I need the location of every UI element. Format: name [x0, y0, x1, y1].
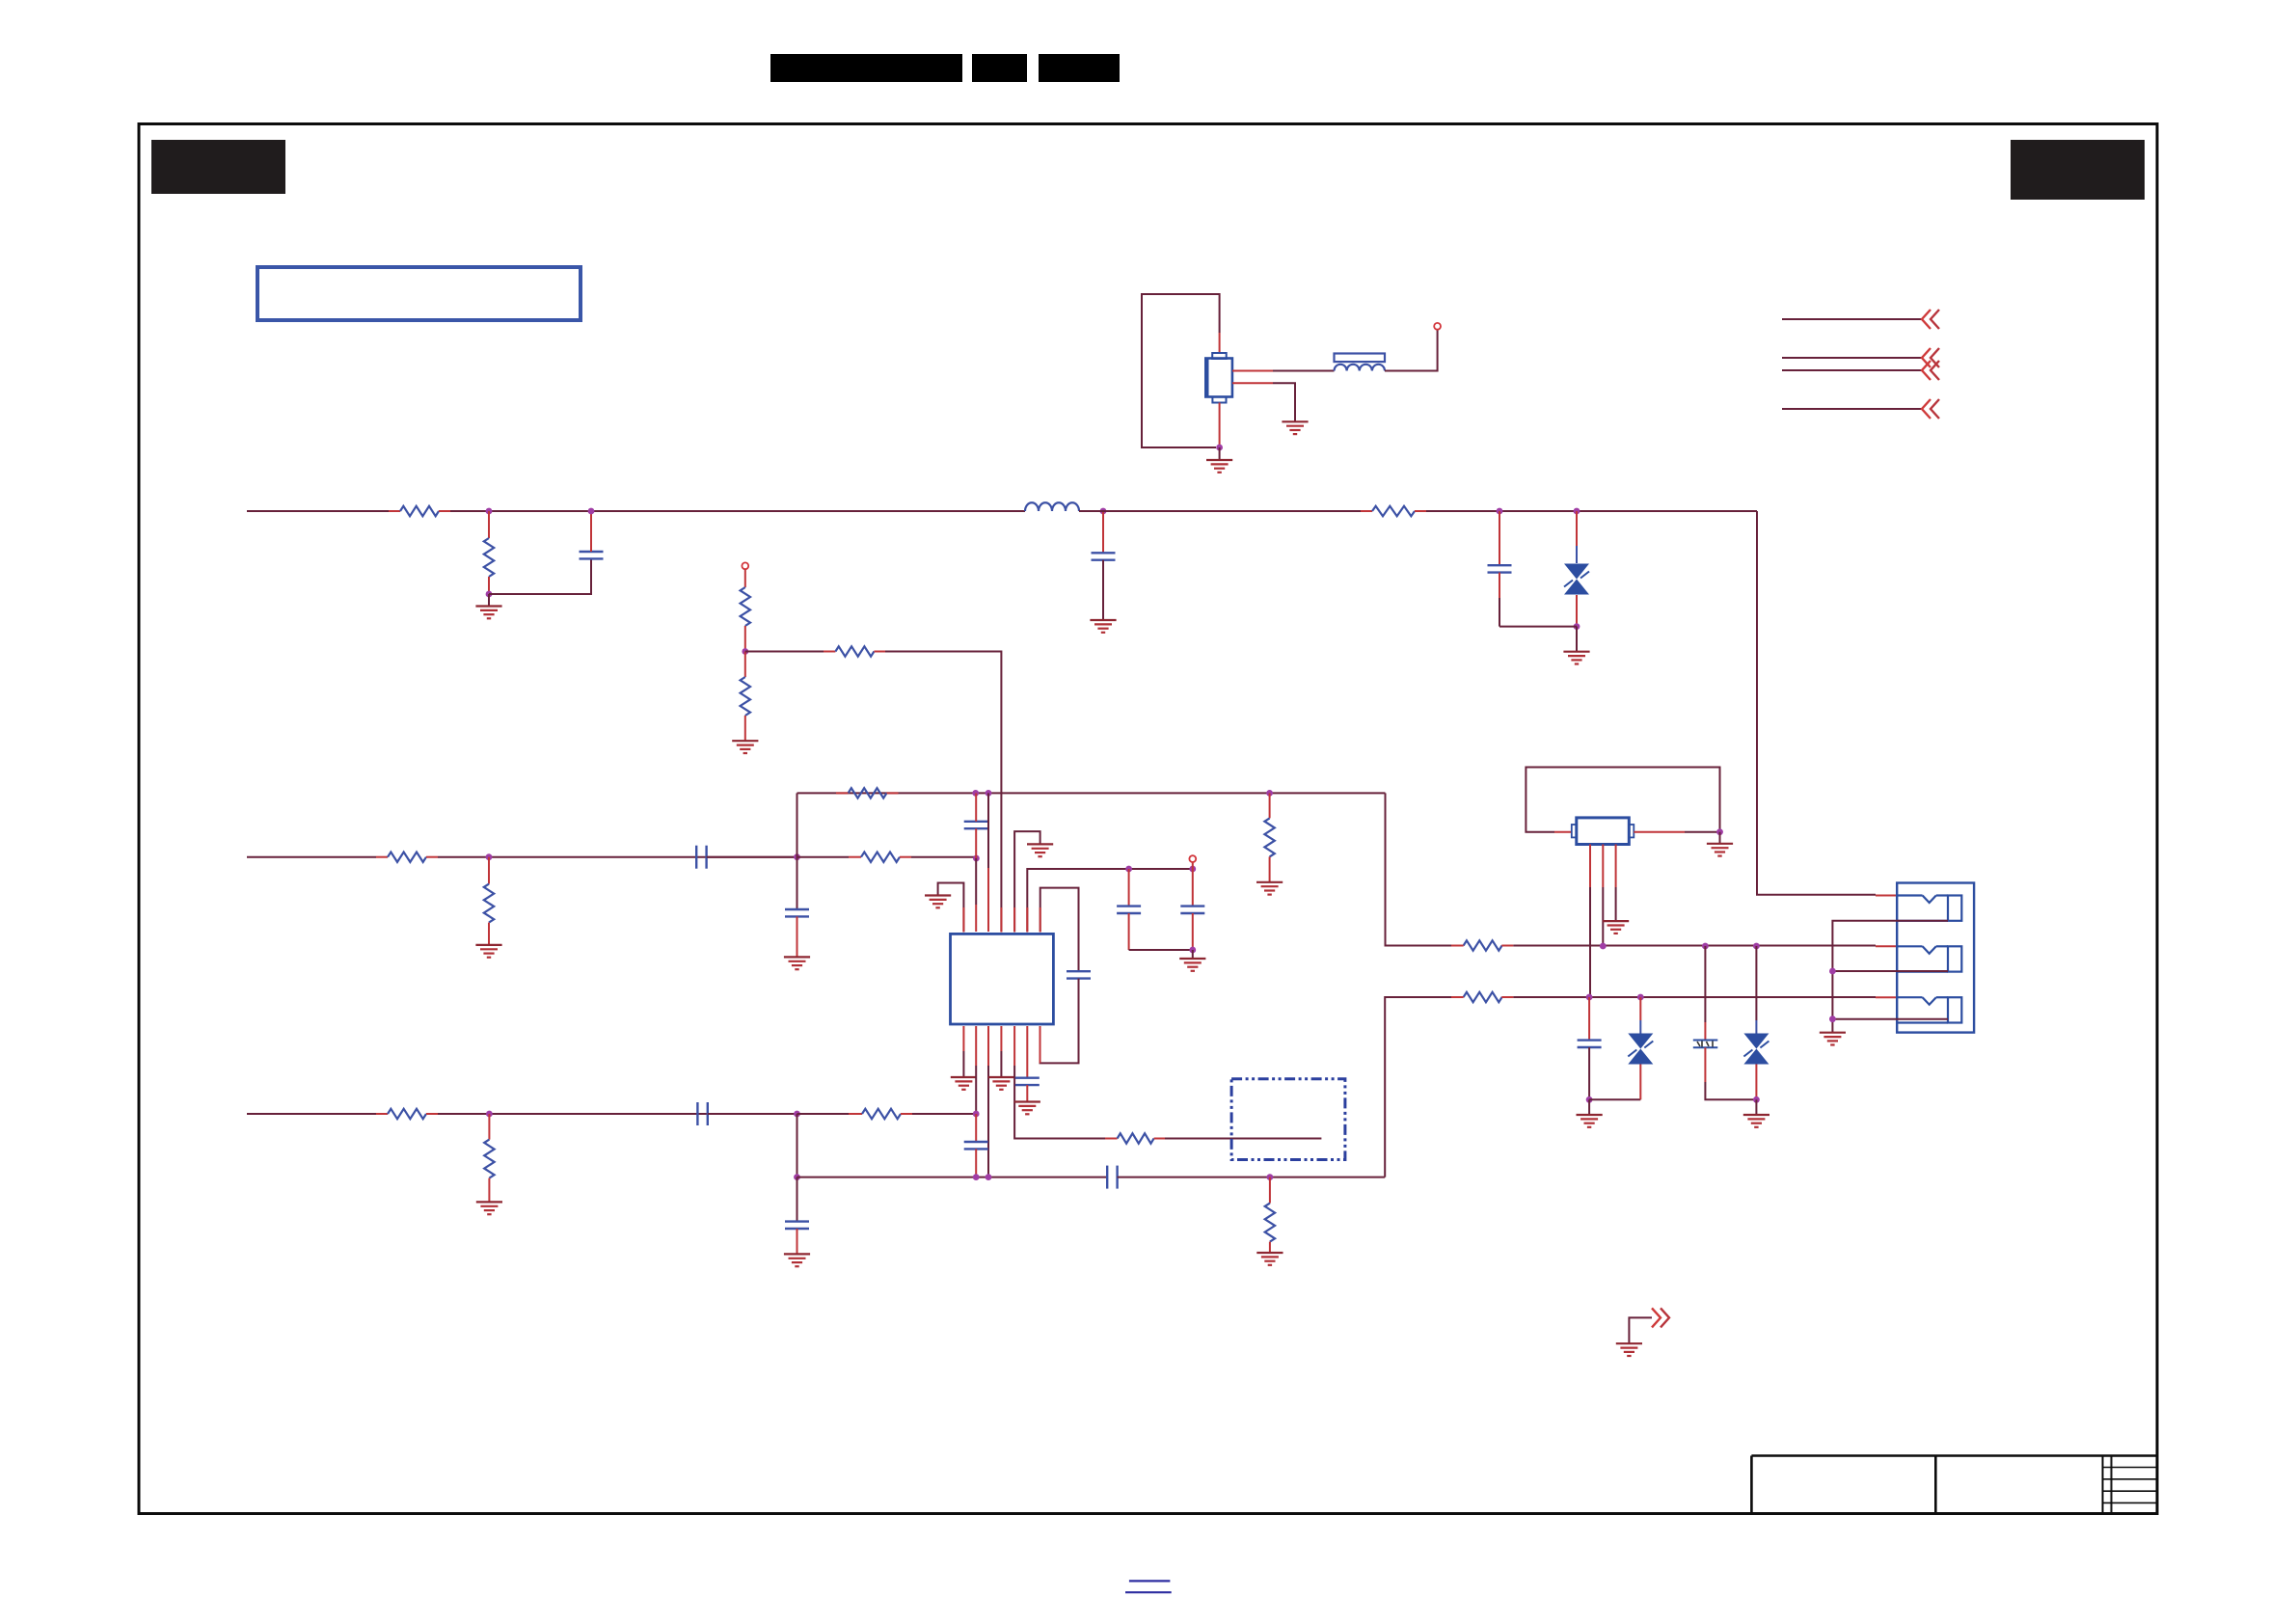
wire crystal pinA	[1589, 845, 1591, 998]
capacitor C9s (series, line3)	[697, 1102, 707, 1125]
node C11 bottom junction	[1586, 1096, 1593, 1103]
wire pin2 cap lead	[975, 1114, 977, 1142]
wire line2 to C5	[797, 857, 798, 909]
ground G14 (pin4 bottom)	[988, 1077, 1014, 1090]
wire lineA	[1451, 940, 1897, 950]
bus entry arrow 3	[1922, 361, 1939, 380]
node line4 junction D	[1267, 1174, 1274, 1180]
wire R16 to module	[1154, 1138, 1322, 1140]
resistor R16 (pin5 net)	[1118, 1133, 1154, 1143]
inductor L1	[1335, 365, 1386, 371]
wire pin1 bottom	[962, 1026, 964, 1077]
bus entry arrow 2	[1922, 348, 1939, 367]
wire C3 top lead	[1499, 511, 1500, 565]
wire line2 left	[247, 856, 388, 858]
wire R8 to ground	[488, 923, 490, 945]
wire pin7 loop top	[1040, 888, 1079, 972]
capacitor C7 (pin7 loop)	[1067, 971, 1091, 978]
wire terminal lead	[744, 569, 746, 587]
capacitor C11	[1578, 1041, 1602, 1047]
connector J1	[1897, 883, 1974, 1033]
wire line4 up to lineB	[1385, 997, 1463, 1177]
node net822 junction 1	[972, 790, 979, 797]
resistor R8 (to gnd)	[484, 884, 494, 923]
wire pin2 mid	[975, 828, 977, 858]
node jack3 return junction	[1829, 1015, 1836, 1022]
header redaction bar 2	[972, 54, 1027, 82]
capacitor C5a	[1117, 907, 1141, 913]
node line3 junction B	[794, 1111, 800, 1118]
ground G4	[1090, 620, 1116, 633]
node bus junction D	[1497, 508, 1503, 515]
terminal (test point)	[1189, 855, 1196, 862]
wire bus segment 3	[1079, 510, 1372, 512]
wire line4	[797, 1177, 1108, 1178]
wire R15 lead	[1269, 1177, 1271, 1204]
fuse F1	[1693, 1041, 1718, 1048]
wire pin7 bottom	[1040, 1026, 1041, 1063]
wire bus segment 2	[439, 510, 1025, 512]
wire pin3 to IC	[987, 793, 989, 932]
wire C5 to ground	[797, 916, 798, 957]
wire crystal left lead	[1554, 831, 1572, 833]
wire bus segment 4	[1415, 510, 1757, 512]
net stub 1 (right)	[1782, 318, 1922, 320]
wire line2 seg4	[797, 856, 862, 858]
ground G11	[1256, 882, 1283, 895]
sheet frame	[139, 124, 2157, 1514]
node bus junction B	[588, 508, 595, 515]
ground G5	[1563, 652, 1589, 664]
wire C11 lower lead	[1588, 1047, 1590, 1099]
net stub 3 (right)	[1782, 369, 1922, 371]
capacitor C6	[1180, 907, 1204, 913]
wire Q1 collector stub	[1219, 333, 1221, 353]
resistor R10 (net822)	[836, 788, 899, 798]
wire gnd arrow	[1629, 1317, 1652, 1343]
wire D1 top lead	[1576, 511, 1578, 563]
wire crystal pinC	[1615, 845, 1617, 922]
node lineA junction fuse	[1702, 943, 1709, 950]
ground G20	[1707, 844, 1733, 856]
wire line4 seg2	[1118, 1177, 1386, 1178]
wire fuse chain lower	[1705, 1047, 1756, 1099]
wire node F right	[745, 651, 836, 653]
wire net822 down to lineA	[1386, 793, 1464, 945]
wire caps common	[1129, 949, 1193, 951]
wire C1 top lead	[590, 511, 592, 552]
capacitor C10	[785, 1222, 809, 1229]
wire node to ground	[488, 594, 490, 607]
ground G7	[475, 945, 501, 958]
wire pin2 upper lead	[975, 793, 977, 821]
resistor R14 (line3)	[862, 1109, 901, 1119]
wire R2 lead	[488, 511, 490, 538]
wire C11/D2 common	[1589, 1098, 1640, 1100]
ground G3	[475, 607, 501, 619]
wire Q1 emitter to ground	[1219, 447, 1221, 460]
node lineB junction tvs	[1637, 994, 1644, 1001]
resistor R2 (to gnd)	[484, 538, 494, 577]
wire pin5 bracket	[1014, 831, 1040, 932]
net stub 4 (right)	[1782, 408, 1922, 410]
wire line2 seg5	[900, 856, 976, 858]
wire D2 upper lead	[1639, 997, 1641, 1034]
capacitor C4 (series, line2)	[696, 846, 706, 869]
wire C6 upper lead	[1192, 869, 1194, 907]
ground G13 (pin1 bottom)	[951, 1077, 977, 1090]
wire C2 top lead	[1102, 511, 1104, 553]
node lineB junction cap	[1586, 994, 1593, 1001]
node junction below R2	[486, 591, 493, 598]
wire loop around Q1	[1142, 294, 1220, 447]
node lineA junction tvs	[1753, 943, 1760, 950]
node net822 junction 3	[1266, 790, 1273, 797]
resistor R9 (line2)	[861, 853, 900, 862]
ground G17	[784, 1254, 810, 1266]
resistor R13 (to gnd)	[484, 1140, 494, 1178]
ground G10 (pin5 bracket)	[1027, 844, 1053, 856]
node bus junction E	[1574, 508, 1580, 515]
wire R11 to ground	[1269, 856, 1271, 881]
wire D1 bottom lead	[1576, 595, 1578, 627]
resistor R12 (line3)	[388, 1109, 426, 1119]
ground under Q1	[1206, 460, 1232, 473]
capacitor C9 (pin2)	[964, 1142, 988, 1149]
wire pin5 bottom	[1014, 1026, 1105, 1139]
ground G19 (pinC)	[1603, 921, 1629, 934]
wire C5a upper lead	[1128, 869, 1130, 907]
capacitor C1	[580, 552, 604, 558]
wire pin6 bottom	[1026, 1026, 1028, 1078]
terminal (antenna)	[1434, 323, 1441, 330]
ground G24	[1616, 1343, 1642, 1356]
wire D2 lower lead	[1639, 1065, 1641, 1100]
bus entry arrow 1	[1922, 310, 1939, 329]
wire pin6 net	[1027, 869, 1193, 932]
footer link line 2	[1125, 1591, 1172, 1593]
wire line3 seg3	[708, 1113, 797, 1115]
capacitor C11s (series, line4)	[1107, 1166, 1117, 1189]
ground G22	[1743, 1115, 1769, 1127]
node line4 junction B	[973, 1174, 980, 1180]
transistor Q1	[1205, 353, 1232, 403]
wire line3 left	[247, 1113, 388, 1115]
ground G21	[1577, 1115, 1603, 1127]
wire R13 lead	[488, 1114, 490, 1140]
wire L1 to antenna terminal	[1385, 330, 1438, 371]
resistor R15 (to gnd)	[1265, 1204, 1275, 1242]
wire tvs2 chain upper	[1755, 946, 1757, 1034]
resistor R6	[835, 646, 874, 656]
net stub 2 (right)	[1782, 357, 1922, 359]
header redaction bar 3	[1039, 54, 1120, 82]
wire R6 to IC pin4	[874, 652, 1001, 933]
wire C9 to line4	[975, 1149, 977, 1177]
resistor R5	[741, 677, 750, 716]
terminal (pullup)	[742, 562, 748, 569]
wire IC top pin leads (red)	[963, 907, 1040, 933]
title block	[1751, 1456, 2156, 1514]
node line3 end junction	[973, 1111, 980, 1118]
TVS diode D3	[1743, 1034, 1769, 1065]
title redaction box top-right	[2011, 140, 2145, 200]
node crystal junction	[1716, 828, 1723, 835]
wire R2 to node	[488, 577, 490, 594]
wire Q1 pin2 to ground	[1232, 383, 1295, 421]
capacitor C4b (pin2)	[964, 822, 988, 828]
TVS diode D1	[1564, 564, 1589, 595]
note box (blue outline)	[257, 267, 581, 320]
wire up to net822	[797, 793, 798, 856]
wire terminal stub	[1192, 862, 1194, 869]
wire crystal to ground	[1719, 832, 1721, 844]
wire pin3 bottom	[987, 1026, 989, 1177]
node pin6 net junction 2	[1189, 866, 1196, 873]
IC U1	[951, 934, 1054, 1024]
node net822 junction 2	[986, 790, 992, 797]
capacitor C3	[1488, 565, 1512, 572]
footer link line 1	[1129, 1580, 1171, 1582]
resistor R4	[741, 587, 750, 626]
inductor L1 shield	[1335, 354, 1386, 363]
node tvs2 bottom junction	[1753, 1096, 1760, 1103]
crystal Y1	[1572, 818, 1634, 845]
wire C1 loop	[489, 558, 591, 594]
node junction below D1	[1574, 623, 1580, 630]
wire to ground G21	[1588, 1099, 1590, 1115]
wire C11 upper lead	[1588, 997, 1590, 1041]
node line2 junction A	[486, 853, 493, 860]
resistor R11 (to gnd)	[1264, 818, 1274, 856]
title redaction box top-left	[151, 140, 285, 194]
wire to ground G12	[1192, 950, 1194, 959]
wire pin4 bottom	[1000, 1026, 1002, 1077]
wire Q1 pin to L1	[1232, 370, 1335, 372]
node lineA junction pinB	[1600, 943, 1607, 950]
capacitor C2	[1092, 553, 1116, 559]
wire R4 to node	[744, 626, 746, 652]
wire line3 seg2	[426, 1113, 797, 1115]
wire pin7 loop bottom	[1040, 979, 1079, 1064]
wire fuse chain upper	[1704, 946, 1706, 1040]
wire lineB	[1451, 992, 1897, 1002]
wire Q1 emitter stub	[1219, 403, 1221, 448]
ground G8	[784, 957, 810, 969]
header redaction bar 1	[770, 54, 962, 82]
node caps common junction	[1189, 947, 1196, 954]
wire crystal pinB	[1602, 845, 1604, 947]
node line4 junction C	[986, 1174, 992, 1180]
ground under Q1 pin2	[1282, 421, 1308, 434]
resistor R3 (bus)	[1372, 506, 1415, 516]
wire jack3 return	[1832, 1018, 1948, 1020]
wire R8 lead	[488, 857, 490, 884]
node line2 junction B	[794, 853, 800, 860]
wire R5 to ground	[744, 716, 746, 741]
wire net822	[797, 792, 1386, 794]
wire R11 lead	[1269, 793, 1271, 818]
ground G16	[476, 1202, 502, 1214]
capacitor C8 (pin6)	[1015, 1078, 1040, 1085]
wire C5a lower lead	[1128, 913, 1130, 950]
wire R5 lead	[744, 652, 746, 678]
wire pin2 to IC	[975, 858, 977, 932]
module (dash-dot box)	[1231, 1079, 1345, 1160]
node jack2 return junction	[1829, 968, 1836, 975]
wire jack2 return	[1832, 970, 1948, 972]
wire C3 bottom	[1499, 573, 1500, 627]
wire line2 seg2	[426, 856, 797, 858]
node line3 junction A	[486, 1111, 493, 1118]
node line2 end junction	[973, 855, 980, 862]
wire crystal right lead	[1634, 831, 1719, 833]
wire pin1 bracket	[938, 883, 964, 933]
TVS diode D2	[1628, 1034, 1653, 1065]
wire line3 seg4	[797, 1113, 863, 1115]
wire line3 seg5	[901, 1113, 976, 1115]
ground G9 (pin1 bracket)	[925, 896, 951, 908]
wire C10 lead	[797, 1177, 798, 1222]
wire tvs2 chain lower	[1755, 1065, 1757, 1100]
wire R15 to ground	[1269, 1242, 1271, 1253]
wire D1 to ground	[1576, 627, 1578, 652]
wire R13 to ground	[488, 1178, 490, 1203]
node bus junction C	[1100, 508, 1107, 515]
wire pin2 bottom	[975, 1026, 977, 1114]
wire jack returns	[1832, 921, 1948, 1033]
wire C3/D1 common	[1499, 626, 1577, 628]
node pin6 net junction 1	[1125, 866, 1132, 873]
wire C2 to ground	[1102, 560, 1104, 620]
wire C6 lower lead	[1192, 913, 1194, 950]
inductor L2 (bus)	[1025, 502, 1079, 511]
wire crystal loop	[1526, 768, 1719, 832]
wire line2-3 tie	[797, 1114, 798, 1177]
wire C8 to ground	[1026, 1085, 1028, 1101]
ground G15	[1014, 1102, 1040, 1115]
wire C10 to ground	[797, 1229, 798, 1254]
node Q1 emitter junction	[1216, 445, 1223, 451]
wire pin5 net lead	[1105, 1138, 1118, 1140]
ground G12	[1179, 959, 1205, 971]
ground G6	[732, 741, 758, 753]
bus exit arrow (gnd)	[1652, 1308, 1669, 1327]
node line4 junction A	[794, 1174, 800, 1180]
wire tvs2 to ground	[1755, 1099, 1757, 1115]
node junction F	[742, 648, 748, 655]
wire line2 seg3	[707, 856, 797, 858]
resistor R1 (bus)	[400, 506, 439, 516]
node bus junction A	[486, 508, 493, 515]
wire bus to connector	[1757, 511, 1897, 896]
bus entry arrow 4	[1922, 399, 1939, 419]
ground G23 (connector)	[1820, 1033, 1846, 1045]
capacitor C5	[785, 909, 809, 916]
wire bus left	[247, 510, 400, 512]
ground G18	[1256, 1253, 1283, 1265]
resistor R7 (line2)	[388, 853, 426, 862]
